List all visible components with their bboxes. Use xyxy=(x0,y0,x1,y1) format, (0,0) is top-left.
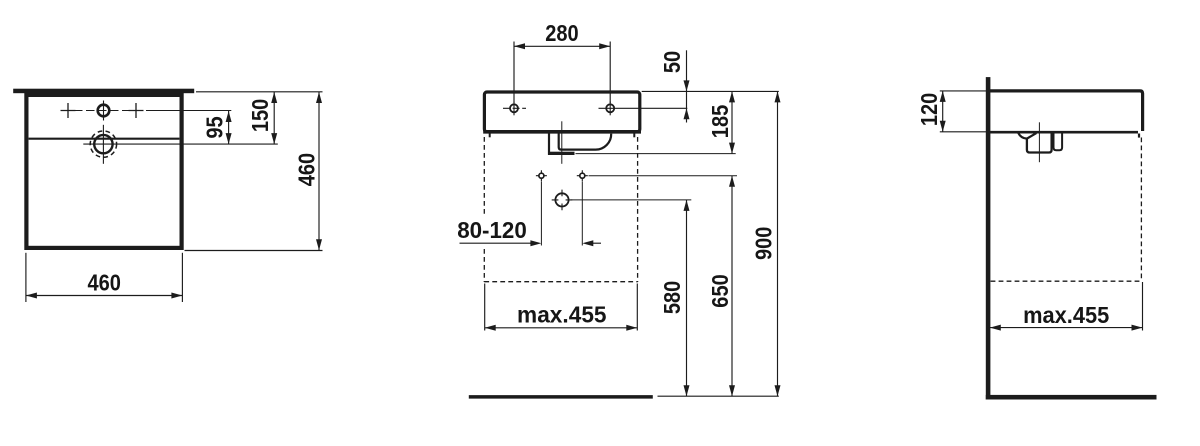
wall line thick xyxy=(986,77,991,399)
svg-text:280: 280 xyxy=(545,20,578,46)
ext line top bar right xyxy=(196,91,323,93)
trap bottom ext line to 185 xyxy=(576,153,736,155)
dim 150 line xyxy=(273,92,275,144)
trap side centerline xyxy=(1038,122,1040,162)
dim 80-120 line left tail xyxy=(460,242,533,244)
trap outer left wall xyxy=(548,133,550,155)
dashed vertical right xyxy=(1140,138,1142,282)
right optional taphole cross xyxy=(129,103,144,118)
drain pipe circle xyxy=(555,193,568,206)
svg-text:max.455: max.455 xyxy=(517,301,607,327)
wall bar (thick top edge) xyxy=(13,89,194,94)
dim 80-120 line redraw over mask xyxy=(460,242,533,244)
svg-text:185: 185 xyxy=(707,105,733,138)
basin outline square xyxy=(26,95,181,248)
dim 460 bottom line xyxy=(26,295,183,297)
basin bottom edge thick xyxy=(483,130,641,134)
left mounting foot xyxy=(489,133,491,137)
drain centerline horizontal xyxy=(83,143,277,145)
basin foot tick xyxy=(1138,134,1140,138)
right mounting foot xyxy=(633,133,635,137)
svg-text:50: 50 xyxy=(659,51,685,73)
basin profile top xyxy=(987,91,1143,131)
svg-text:650: 650 xyxy=(707,274,733,307)
dim 185 line xyxy=(731,91,733,153)
faucet hole circle xyxy=(98,105,110,117)
dim 650 line xyxy=(731,176,733,397)
drain solid circle xyxy=(94,135,112,153)
dim max455 right line xyxy=(990,327,1143,329)
ext line bottom right xyxy=(185,250,323,252)
left taphole circle xyxy=(510,104,518,112)
svg-text:460: 460 xyxy=(294,153,320,186)
svg-text:150: 150 xyxy=(247,99,273,132)
dim 80-120 line right tail xyxy=(592,242,601,244)
dim 120 ext lines xyxy=(940,90,987,92)
basin inner back edge line xyxy=(29,138,180,140)
trap side funnel cup xyxy=(1018,133,1036,139)
dim 460 vertical line xyxy=(318,92,320,250)
fixing screw hole left xyxy=(539,173,544,178)
svg-text:120: 120 xyxy=(916,93,942,126)
dim 95 line xyxy=(228,111,230,144)
basin top ext line to 900 xyxy=(642,90,779,92)
label 80-120 xyxy=(454,214,530,249)
dim 120 line xyxy=(942,91,944,132)
dashed cabinet box left xyxy=(483,137,485,282)
max455 right ext vertical xyxy=(1142,282,1144,331)
dim 280 ext lines xyxy=(513,42,515,104)
drain pipe ext line to 580 dim xyxy=(571,199,692,201)
dim 280 line xyxy=(514,45,610,47)
svg-text:460: 460 xyxy=(87,270,120,296)
fixing screw hole right xyxy=(580,173,585,178)
trap side right tab xyxy=(1054,133,1063,150)
svg-text:max.455: max.455 xyxy=(1023,302,1109,328)
screw hole verticals for 80-120 xyxy=(540,182,542,246)
trap inner wall and right sweep curve xyxy=(559,133,612,150)
floor ext line xyxy=(658,395,779,397)
svg-text:80-120: 80-120 xyxy=(457,217,527,243)
faucet hole vertical ticks xyxy=(103,101,105,121)
trap centerline xyxy=(561,121,563,164)
drain centerline vertical xyxy=(102,125,104,164)
svg-text:900: 900 xyxy=(751,227,777,260)
drain dashed circle xyxy=(90,131,116,157)
dashed cabinet box bottom xyxy=(484,281,637,283)
left optional taphole cross xyxy=(61,103,76,118)
right taphole circle xyxy=(606,104,614,112)
screw ext line to 650 dim xyxy=(589,175,738,177)
trap drain thick bar xyxy=(548,152,575,155)
taphole centerline xyxy=(74,110,148,112)
floor line thick xyxy=(469,395,653,399)
dashed cabinet box right xyxy=(637,137,639,282)
svg-text:580: 580 xyxy=(659,281,685,314)
dashed horizontal xyxy=(991,280,1143,282)
ext lines bottom 460 xyxy=(25,253,27,302)
basin profile bottom xyxy=(989,131,1138,134)
svg-text:95: 95 xyxy=(202,116,228,138)
dim 900 line xyxy=(777,91,779,396)
max455 ext verticals xyxy=(484,284,486,331)
trap side body xyxy=(1027,133,1052,153)
dim max455 line xyxy=(485,327,638,329)
floor line thick xyxy=(986,395,1157,400)
dim 580 line xyxy=(686,200,688,396)
dim 50 line xyxy=(686,50,688,122)
basin body rectangle xyxy=(484,92,639,132)
